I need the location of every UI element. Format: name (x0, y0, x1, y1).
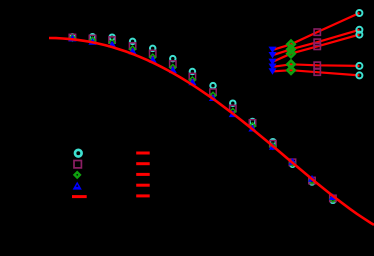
data cluster 6: square marker (170, 61, 176, 67)
legend red line sample (72, 195, 87, 198)
fan line 5 square marker (314, 69, 320, 75)
legend column 2 red line sample 5 (136, 194, 150, 197)
data cluster 5: diamond marker (150, 54, 156, 60)
extrapolation line 2 (273, 30, 360, 55)
data cluster 6: circle marker (170, 56, 176, 62)
fan line 2 square marker (314, 39, 320, 45)
data cluster 9: diamond marker (230, 109, 236, 115)
data cluster 10: circle marker (250, 119, 256, 125)
legend column 2 red line sample 2 (136, 162, 150, 165)
legend triangle marker (73, 182, 82, 190)
data cluster 1: square marker (69, 34, 75, 40)
data cluster 3: diamond marker (109, 39, 115, 45)
data cluster 3: square marker (109, 37, 115, 43)
data cluster 7: square marker (189, 73, 195, 79)
data cluster 8: triangle marker (209, 94, 217, 101)
fan line 4 square marker (314, 62, 320, 68)
data cluster 4: triangle marker (129, 48, 137, 55)
fan line 1 circle marker (356, 10, 362, 16)
data cluster 9: circle marker (230, 100, 236, 106)
fan line 1 square marker (314, 29, 320, 35)
data cluster 3: triangle marker (108, 41, 116, 48)
data cluster 13: diamond marker (309, 178, 315, 184)
data cluster 3: circle marker (109, 34, 115, 40)
data cluster 2: circle marker (90, 34, 96, 40)
fan line 3 circle marker (356, 32, 362, 38)
data cluster 14: diamond marker (330, 196, 336, 202)
data cluster 11: triangle marker (269, 143, 277, 150)
data cluster 8: circle marker (210, 83, 216, 89)
extrapolation line 3 (273, 35, 360, 62)
data cluster 5: circle marker (150, 46, 156, 52)
data cluster 2: square marker (89, 35, 95, 41)
fan line 1 triangle marker (269, 47, 277, 54)
extrapolation line 5 (273, 70, 360, 75)
data cluster 10: triangle marker (248, 125, 256, 132)
fan line 3 square marker (314, 43, 320, 49)
data cluster 4: circle marker (130, 39, 136, 45)
data cluster 14: circle marker (330, 198, 336, 204)
exact solution red curve (49, 38, 374, 225)
data cluster 11: square marker (270, 141, 276, 147)
data cluster 5: square marker (150, 50, 156, 56)
data cluster 9: square marker (230, 105, 236, 111)
legend triangle marker inner hole (76, 184, 78, 186)
data cluster 8: diamond marker (210, 92, 216, 98)
data cluster 14: square marker (330, 195, 336, 201)
legend column 2 red line sample 3 (136, 173, 150, 176)
data cluster 12: circle marker (290, 161, 296, 167)
data cluster 4: diamond marker (130, 46, 136, 52)
fan line 5 triangle marker (269, 68, 277, 75)
extrapolation line 4 (273, 64, 360, 67)
data cluster 1: circle marker (70, 34, 76, 40)
data cluster 4: square marker (129, 43, 135, 49)
fan line 4 triangle marker (269, 64, 277, 71)
extrapolation line 1 (273, 13, 360, 50)
data cluster 5: triangle marker (149, 56, 157, 63)
legend column 2 red line sample 1 (136, 152, 150, 155)
legend circle marker (75, 150, 82, 157)
data cluster 6: diamond marker (170, 65, 176, 71)
data cluster 12: square marker (289, 159, 295, 165)
data cluster 7: triangle marker (188, 79, 196, 86)
data cluster 10: square marker (249, 120, 255, 126)
data cluster 12: triangle marker (288, 158, 296, 165)
data cluster 9: triangle marker (229, 110, 237, 117)
data cluster 10: diamond marker (250, 123, 256, 129)
data cluster 8: square marker (210, 89, 216, 95)
fan line 2 circle marker (356, 27, 362, 33)
fan line 3 diamond marker (287, 50, 294, 57)
data cluster 6: triangle marker (169, 66, 177, 73)
fan line 2 diamond marker (287, 46, 294, 53)
data cluster 13: square marker (309, 177, 315, 183)
fan line 4 circle marker (356, 63, 362, 69)
fan line 2 triangle marker (269, 52, 277, 59)
data cluster 7: circle marker (190, 69, 196, 75)
legend column 2 red line sample 4 (136, 184, 150, 187)
data cluster 1: diamond marker (69, 35, 75, 41)
fan line 4 diamond marker (287, 61, 294, 68)
fan line 3 triangle marker (269, 59, 277, 66)
data cluster 14: triangle marker (329, 193, 337, 200)
data cluster 2: triangle marker (88, 38, 96, 45)
data cluster 1: triangle marker (68, 35, 76, 42)
fan line 5 diamond marker (287, 67, 294, 74)
data cluster 11: diamond marker (270, 143, 276, 149)
fan line 1 diamond marker (287, 41, 294, 48)
data cluster 7: diamond marker (189, 77, 195, 83)
legend diamond marker (73, 171, 82, 180)
data cluster 13: circle marker (309, 179, 315, 185)
data cluster 12: diamond marker (290, 160, 296, 166)
legend square marker (74, 161, 81, 168)
data cluster 13: triangle marker (308, 175, 316, 182)
data cluster 2: diamond marker (90, 37, 96, 43)
fan line 5 circle marker (356, 72, 362, 78)
data cluster 11: circle marker (270, 139, 276, 145)
